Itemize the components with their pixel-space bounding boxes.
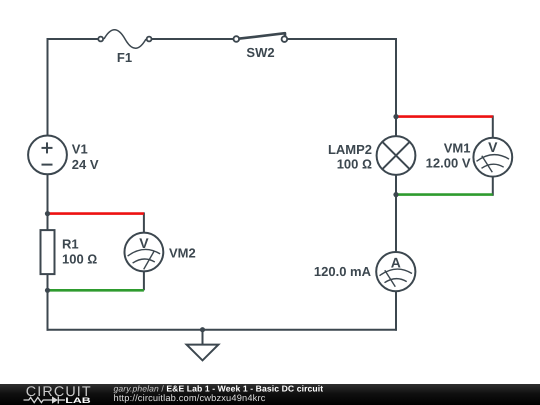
wire node D to ammeter (395, 195, 397, 252)
svg-text:120.0 mA: 120.0 mA (314, 264, 372, 279)
svg-text:VM1: VM1 (444, 141, 471, 156)
wire right vertical down to node (395, 38, 397, 117)
wire ammeter to bottom rail (395, 291, 397, 330)
voltmeter VM1 (426, 138, 513, 177)
wire VM1 top drop (492, 115, 494, 137)
wire green lead R1/VM2 (48, 289, 144, 292)
voltmeter VM2 (124, 233, 195, 272)
svg-text:V: V (139, 235, 149, 251)
wire fuse to switch (152, 38, 234, 40)
wire green lead LAMP2/VM1 (396, 193, 493, 196)
wire VM2 top drop (143, 212, 145, 232)
node D junction dot (393, 192, 398, 197)
node B junction dot (45, 288, 50, 293)
svg-text:R1: R1 (62, 236, 79, 251)
node GND junction dot (200, 327, 205, 332)
wire bottom rail (47, 329, 398, 331)
fuse F1 (98, 30, 151, 65)
wire red lead R1/VM2 (48, 212, 144, 215)
svg-text:V: V (488, 139, 498, 155)
wire red lead LAMP2/VM1 (396, 115, 493, 118)
wire V1 to node A (47, 174, 49, 213)
wire switch to top-right corner (288, 38, 397, 40)
switch SW2 (234, 33, 288, 60)
svg-text:A: A (391, 255, 401, 271)
svg-text:12.00 V: 12.00 V (426, 155, 471, 170)
node A junction dot (45, 211, 50, 216)
ground (187, 330, 219, 361)
svg-text:http://circuitlab.com/cwbzxu49: http://circuitlab.com/cwbzxu49n4krc (114, 393, 266, 403)
svg-text:SW2: SW2 (246, 45, 274, 60)
svg-text:VM2: VM2 (169, 245, 196, 260)
CircuitLab logo resistor-diode glyph (24, 396, 66, 403)
lamp LAMP2 (328, 117, 415, 195)
wire node B to bottom rail (47, 290, 49, 330)
resistor R1 (41, 214, 98, 291)
svg-text:F1: F1 (117, 50, 132, 65)
svg-text:100 Ω: 100 Ω (337, 157, 372, 172)
svg-text:V1: V1 (72, 142, 88, 157)
node C junction dot (393, 114, 398, 119)
footer bar (0, 384, 540, 405)
svg-text:LAB: LAB (65, 396, 91, 405)
wire VM1 bottom drop (492, 177, 494, 196)
wire top-left horizontal (48, 38, 99, 40)
svg-text:LAMP2: LAMP2 (328, 142, 372, 157)
svg-text:gary.phelan / E&E Lab 1 - Week: gary.phelan / E&E Lab 1 - Week 1 - Basic… (114, 383, 324, 393)
wire left vertical (top) (47, 38, 49, 136)
svg-text:24 V: 24 V (72, 157, 99, 172)
voltage source V1 (28, 136, 99, 175)
ammeter AM1 (314, 252, 415, 291)
svg-text:100 Ω: 100 Ω (62, 252, 97, 267)
wire VM2 bottom drop (143, 271, 145, 290)
